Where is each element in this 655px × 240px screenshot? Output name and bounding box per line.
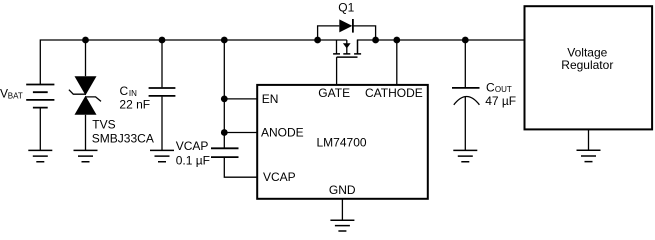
node Q1 drain junction <box>372 37 379 44</box>
node C_OUT top junction <box>462 37 469 44</box>
svg-text:LM74700: LM74700 <box>317 136 367 150</box>
wire C_IN bottom <box>161 97 163 151</box>
ground (regulator) <box>577 150 601 161</box>
ground (LM74700 GND) <box>330 220 354 231</box>
svg-text:TVS: TVS <box>92 117 115 131</box>
node anode branch top junction <box>221 37 228 44</box>
svg-text:SMBJ33CA: SMBJ33CA <box>92 132 154 146</box>
capacitor C_IN 22 nF <box>149 88 176 96</box>
label V_BAT <box>0 87 23 101</box>
wire GND pin <box>341 199 343 220</box>
svg-text:EN: EN <box>262 92 279 106</box>
capacitor VCAP 0.1 uF <box>211 148 239 157</box>
wire C_OUT top <box>464 40 466 87</box>
svg-text:ANODE: ANODE <box>261 125 304 139</box>
svg-text:Q1: Q1 <box>338 1 354 15</box>
svg-text:CATHODE: CATHODE <box>365 86 423 100</box>
ground (battery) <box>28 150 52 161</box>
label Voltage Regulator <box>561 46 613 72</box>
wire top rail left segment <box>40 40 347 85</box>
svg-text:BAT: BAT <box>8 92 23 101</box>
battery V_BAT <box>26 85 54 151</box>
wire C_IN top <box>161 40 163 87</box>
wire TVS bottom <box>85 115 87 151</box>
node ANODE junction <box>221 129 228 136</box>
capacitor C_OUT 47 uF polarized <box>452 88 480 105</box>
body diode of Q1 <box>339 19 353 33</box>
wire GATE lead <box>336 57 338 85</box>
node EN junction <box>221 96 228 103</box>
wire body diode right <box>353 26 376 40</box>
svg-text:OUT: OUT <box>495 85 512 94</box>
label TVS SMBJ33CA <box>92 117 154 145</box>
svg-text:VCAP: VCAP <box>176 139 209 153</box>
wire top rail right segment <box>358 40 524 54</box>
wire ANODE pin <box>224 132 257 134</box>
transistor Q1 MOSFET <box>333 40 361 57</box>
svg-text:C: C <box>120 84 129 98</box>
svg-text:Regulator: Regulator <box>561 58 613 72</box>
svg-text:47 µF: 47 µF <box>485 94 516 108</box>
ground (TVS) <box>74 150 98 161</box>
TVS diode D1 SMBJ33CA <box>69 76 101 115</box>
wire CATHODE lead <box>396 40 398 85</box>
wire regulator ground lead <box>588 129 590 150</box>
svg-text:GND: GND <box>329 183 356 197</box>
wire EN pin <box>224 98 257 100</box>
wire C_OUT bottom <box>464 97 466 151</box>
node Q1 source junction <box>314 37 321 44</box>
ground (C_IN) <box>150 150 174 161</box>
svg-text:VCAP: VCAP <box>263 170 296 184</box>
wire TVS top <box>85 40 87 76</box>
svg-text:GATE: GATE <box>318 86 350 100</box>
label C_OUT <box>486 81 512 95</box>
node C_IN top junction <box>159 37 166 44</box>
svg-text:C: C <box>486 81 495 95</box>
op-amp U1 LM74700 box <box>257 85 428 199</box>
node CATHODE junction <box>393 37 400 44</box>
label C_IN <box>120 84 138 98</box>
svg-text:0.1 µF: 0.1 µF <box>176 153 210 167</box>
ground (C_OUT) <box>453 150 477 161</box>
node TVS top junction <box>82 37 89 44</box>
svg-text:22 nF: 22 nF <box>119 98 150 112</box>
wire anode vertical branch <box>223 40 225 148</box>
wire VCAP pin <box>224 158 257 177</box>
wire body diode left <box>318 26 340 40</box>
voltage regulator box <box>525 6 653 129</box>
